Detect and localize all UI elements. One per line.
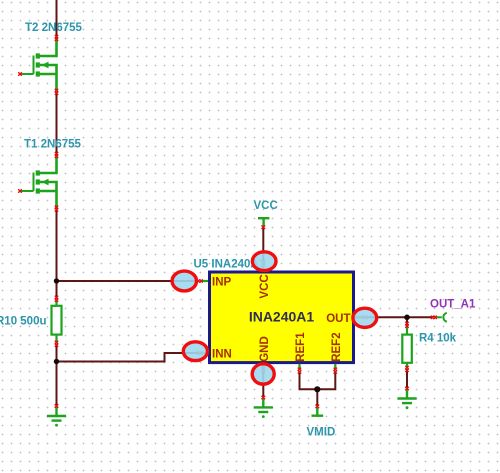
pin mark VMID	[316, 405, 320, 409]
annotation highlight OUT pin	[353, 308, 377, 327]
pin mark ground left	[55, 404, 59, 408]
ground IC GND pin	[254, 398, 273, 418]
ground R4	[397, 390, 416, 410]
pin stub REF1	[298, 364, 300, 370]
pin marks INP INN OUT	[197, 279, 203, 282]
pin stub VCC	[262, 264, 264, 271]
wire R10 bottom to ground	[56, 344, 58, 406]
svg-text:GND: GND	[259, 336, 271, 362]
pin marks R4	[405, 322, 408, 328]
svg-text:VMID: VMID	[307, 427, 336, 439]
pin mark ground R4	[405, 387, 409, 391]
svg-text:REF2: REF2	[331, 332, 343, 361]
svg-text:T1 2N6755: T1 2N6755	[24, 138, 82, 150]
pin marks T2	[55, 35, 58, 41]
wire junction to VMID	[316, 389, 318, 406]
power symbol VCC	[258, 218, 269, 226]
pin marks GND pin	[262, 367, 265, 373]
power symbol VMID	[312, 407, 324, 415]
pin stub INN	[202, 352, 209, 354]
svg-text:R4 10k: R4 10k	[419, 333, 457, 345]
wire OUT junction to R4	[406, 317, 408, 325]
svg-text:VCC: VCC	[254, 200, 278, 212]
wire node INN horizontal	[57, 353, 200, 362]
junction node REF	[314, 386, 320, 392]
resistor R10	[52, 300, 62, 344]
svg-text:INA240A1: INA240A1	[249, 309, 315, 325]
junction node OUT	[404, 315, 410, 321]
pin stub GND	[262, 364, 264, 370]
pin marks T1	[55, 152, 58, 158]
wire REF2 down	[317, 371, 335, 389]
svg-text:R10 500u: R10 500u	[0, 315, 47, 327]
junction node INN	[54, 359, 59, 364]
wire VCC to IC	[262, 228, 264, 262]
net terminal OUT_A1	[436, 313, 447, 322]
wire node INP horizontal	[57, 280, 200, 282]
transistor T1	[20, 155, 56, 209]
wire OUT to terminal	[366, 316, 434, 318]
wire T1 source to R10 top	[56, 209, 58, 299]
svg-text:VCC: VCC	[259, 274, 271, 298]
wire IC GND pin to ground	[262, 371, 264, 397]
resistor R4	[402, 326, 412, 368]
wire REF1 down	[300, 371, 318, 389]
annotation highlight INN pin	[183, 342, 207, 361]
svg-text:OUT_A1: OUT_A1	[430, 299, 476, 311]
transistor T2	[20, 38, 56, 92]
svg-text:INN: INN	[212, 349, 232, 361]
ground left	[47, 407, 66, 427]
svg-text:REF1: REF1	[295, 332, 307, 362]
pin stub REF2	[334, 364, 336, 370]
op-amp U5 INA240A1 body	[210, 272, 354, 363]
pin stub INP	[202, 280, 209, 282]
pin marks REF1 REF2	[298, 368, 301, 374]
wire T2 source to T1 drain	[56, 92, 58, 155]
annotation highlight GND pin	[252, 364, 274, 384]
junction node INP	[54, 278, 59, 283]
svg-text:T2 2N6755: T2 2N6755	[25, 22, 83, 34]
svg-text:INP: INP	[212, 277, 232, 289]
svg-text:OUT: OUT	[326, 313, 350, 325]
pin marks VCC pin	[262, 260, 265, 266]
wire top rail to T2 drain	[56, 0, 58, 38]
annotation highlight INP pin	[172, 271, 196, 291]
pin stub OUT	[355, 316, 363, 318]
pin mark terminal	[431, 316, 437, 319]
annotation highlight VCC pin	[252, 252, 276, 271]
pin marks R10	[55, 296, 58, 302]
wire R4 bottom to ground	[406, 369, 408, 388]
